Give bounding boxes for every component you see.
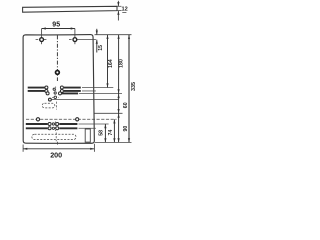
svg-text:200: 200 [50,151,62,160]
svg-text:58: 58 [99,130,105,136]
svg-text:90: 90 [123,126,129,132]
svg-text:74: 74 [108,130,114,136]
svg-text:15: 15 [98,45,104,51]
svg-text:12: 12 [121,7,127,13]
svg-text:60: 60 [123,102,129,108]
svg-text:335: 335 [131,82,137,91]
svg-text:95: 95 [52,21,60,28]
svg-text:164: 164 [108,59,114,68]
svg-text:180: 180 [118,59,124,68]
